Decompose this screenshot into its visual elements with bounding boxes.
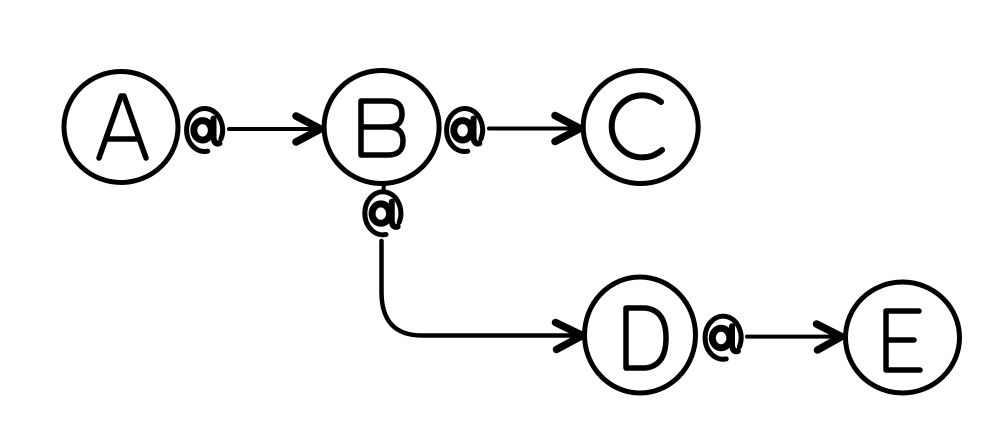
wire arrow B to C xyxy=(489,116,580,142)
label @ on edge B-C xyxy=(447,108,483,151)
node D xyxy=(585,277,696,393)
node E xyxy=(846,282,960,393)
label @ on edge A-B xyxy=(187,108,223,151)
label @ on edge B-D xyxy=(365,192,401,235)
label @ on edge D-E xyxy=(705,316,741,359)
wire arrow A to B xyxy=(229,116,321,142)
wire elbow B to D with arrow xyxy=(382,241,583,350)
node A xyxy=(64,72,178,183)
node B xyxy=(324,71,439,184)
node C xyxy=(583,71,698,184)
wire stub B to label xyxy=(382,184,387,191)
wire arrow D to E xyxy=(747,324,842,350)
